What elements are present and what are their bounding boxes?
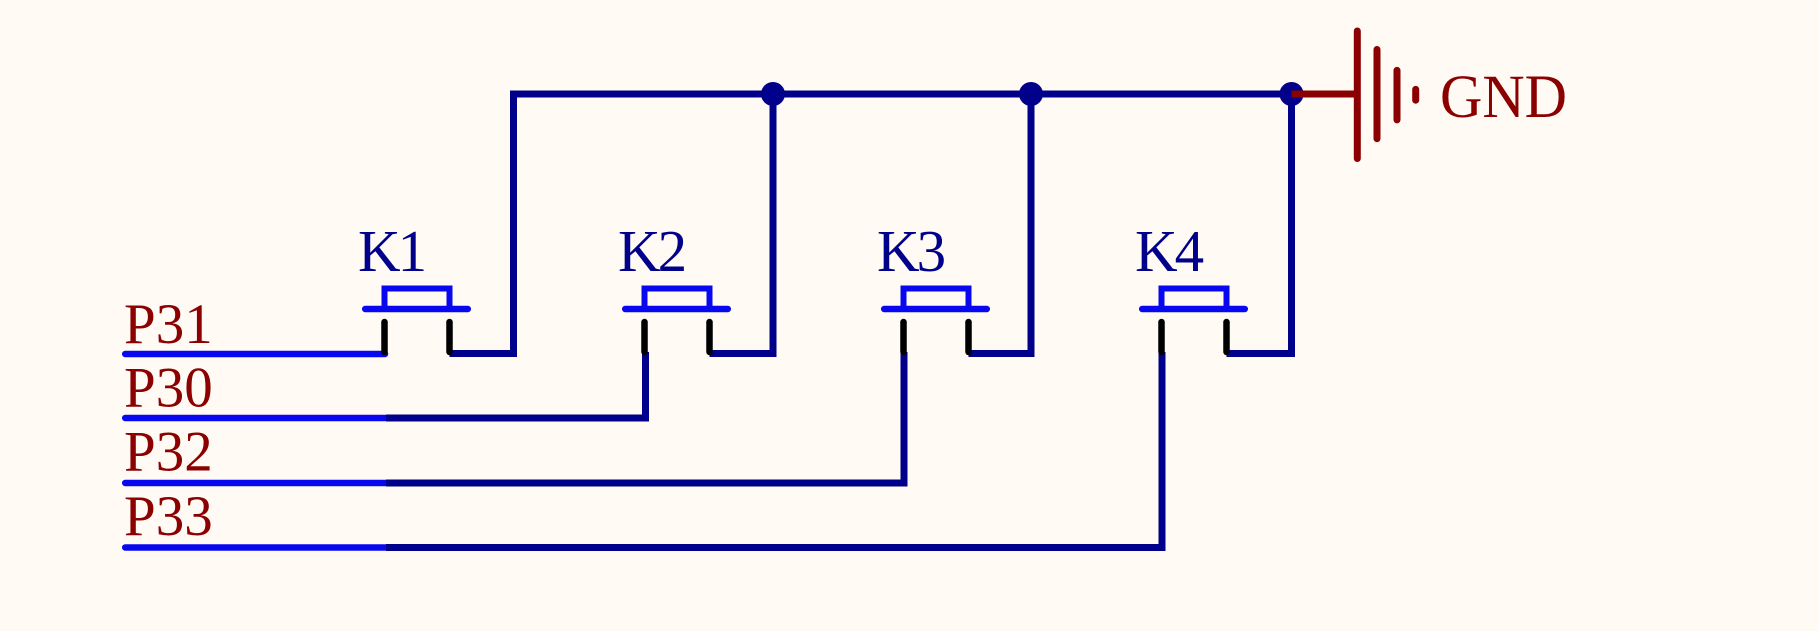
svg-text:P32: P32 (124, 421, 213, 484)
wire: GND top rail with K1 branch (450, 94, 1292, 354)
pin 2 of K2 (706, 322, 713, 352)
wire: K3 branch to rail (969, 94, 1032, 354)
svg-text:K4: K4 (1135, 218, 1204, 284)
pin 2 of K1 (446, 322, 453, 352)
wire: P32 to K3 left pin (386, 352, 904, 483)
wire: net P30 blue segment (125, 415, 386, 422)
wire: K4 branch to rail (1227, 94, 1292, 354)
svg-text:P31: P31 (124, 293, 213, 356)
pushbutton K1 (365, 289, 468, 353)
pin 1 of K3 (900, 322, 907, 352)
pin 2 of K3 (965, 322, 972, 352)
wire: net P32 blue segment (125, 480, 386, 487)
pin 2 of K4 (1223, 322, 1230, 352)
wire: GND stub (dark red) (1292, 91, 1357, 98)
node junction 1 (761, 82, 785, 106)
wire: P30 to K2 left pin (386, 352, 646, 418)
wire: K2 branch to rail (710, 94, 774, 354)
pin 1 of K2 (641, 322, 648, 352)
pushbutton K2 (625, 289, 728, 353)
svg-text:P30: P30 (124, 357, 213, 420)
wire: P33 to K4 left pin (386, 352, 1162, 548)
node junction 2 (1019, 82, 1043, 106)
pushbutton K4 (1142, 289, 1245, 353)
ground symbol GND (1357, 31, 1415, 159)
svg-text:K2: K2 (618, 218, 685, 284)
svg-text:K3: K3 (877, 218, 945, 284)
wire: net P31 blue segment (125, 351, 385, 358)
svg-text:K1: K1 (358, 218, 424, 284)
pin 1 of K1 (381, 322, 388, 352)
node junction 3 (1280, 82, 1304, 106)
pin 1 of K4 (1158, 322, 1165, 352)
svg-text:GND: GND (1440, 64, 1567, 131)
pushbutton K3 (884, 289, 987, 353)
svg-text:P33: P33 (124, 485, 213, 548)
wire: net P33 blue segment (125, 544, 386, 551)
